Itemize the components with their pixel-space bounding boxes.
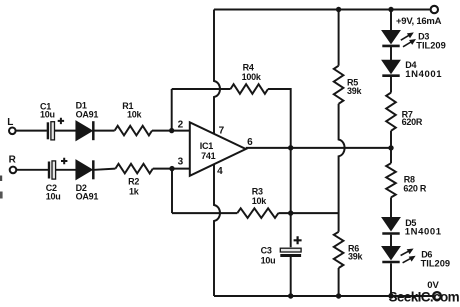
svg-text:R4: R4 [243,62,254,72]
svg-text:3: 3 [178,156,184,167]
wire C3 bottom to rail [290,256,292,296]
junction R7/R8 node [388,145,393,150]
LED D6 cathode bar [382,261,399,264]
wire R2 to pin 3 [153,168,190,170]
op-amp IC1 741 [190,122,246,176]
svg-text:IC1: IC1 [200,141,214,151]
node R input terminal [10,167,17,174]
wire R1 to pin 2 [152,130,190,132]
svg-text:+9V, 16mA: +9V, 16mA [396,16,442,27]
junction top rail LED column [388,7,393,12]
diode D4 cathode bar [382,74,399,77]
wire L input to C1 [16,130,47,132]
svg-text:1N4001: 1N4001 [405,69,442,80]
svg-text:741: 741 [201,151,216,161]
wire D2 to R2 [95,169,116,170]
svg-text:4: 4 [217,166,223,177]
diode D5 cathode bar [382,232,399,235]
wire V+ vertical to pin 7 (hops over R4 feedback wire) [214,10,220,135]
capacitor C2 negative plate [48,162,50,179]
wire pin3 node horizontal to R3 [172,212,237,214]
LED D3 cathode bar [382,45,399,48]
wire R6 bottom to rail [338,268,340,296]
wire R8 to D5 [390,197,392,217]
svg-text:TIL209: TIL209 [416,40,445,50]
junction R3/C3 node [288,210,293,215]
wire LED column top [390,10,392,31]
wire D4 to R7 [390,77,392,93]
resistor R2 [115,164,152,174]
svg-text:C3: C3 [261,245,272,255]
capacitor C1 positive plate [51,122,55,140]
resistor R4 [231,84,269,94]
diode D2 cathode bar [92,160,95,179]
svg-text:OA91: OA91 [76,192,99,202]
capacitor C1 negative plate [47,122,49,139]
plus sign C3 [294,236,302,244]
node +9V terminal [431,6,438,13]
diode D4 [383,61,400,73]
node L input terminal [9,128,16,135]
wire R5 bottom (hops over output wire) [339,104,345,232]
node 0V terminal [433,292,441,300]
svg-text:R2: R2 [128,177,139,187]
wire pin 4 vertical to bottom rail (hops over R3 wire) [214,165,220,297]
wire D5 to D6 [390,235,392,247]
junction bottom rail C3 [288,293,293,298]
svg-text:10k: 10k [127,110,143,120]
resistor R7 [386,93,396,131]
svg-text:620R: 620R [402,117,423,127]
junction bottom rail LED column [388,293,393,298]
junction output node [288,145,293,150]
resistor R8 [386,163,396,197]
LED D3 light arrows [401,32,416,46]
wire pin 3 node down [171,169,173,214]
svg-text:R3: R3 [252,186,263,196]
svg-text:L: L [7,117,13,128]
capacitor C3 negative plate [280,254,301,257]
wire top supply rail [214,9,430,11]
capacitor C2 positive plate [52,161,56,179]
junction top rail R5 [336,7,341,12]
LED D3 [383,31,400,43]
wire R input to C2 [16,169,48,171]
wire R5/R6 column top segment [338,10,340,66]
LED D6 light arrows [401,249,416,263]
svg-text:SeekIC.com: SeekIC.com [389,290,460,305]
resistor R1 [115,126,152,136]
wire bottom 0V rail [214,295,433,297]
svg-text:100k: 100k [242,72,262,82]
diode D5 [383,218,400,230]
wire output node down to R3/C3 node [290,148,292,213]
wire C2 to D2 [56,169,77,171]
wire feedback horizontal to R4 [172,88,231,90]
svg-text:10u: 10u [46,192,61,202]
svg-text:10u: 10u [261,255,276,265]
svg-text:10u: 10u [40,110,55,120]
svg-text:1N4001: 1N4001 [405,227,442,238]
plus sign C1 [58,118,64,124]
svg-text:620 R: 620 R [403,183,427,193]
svg-text:10k: 10k [252,196,268,206]
resistor R6 [334,232,344,268]
LED D6 [383,247,400,259]
resistor R5 [334,66,344,104]
wire D1 to R1 [95,130,115,132]
wire C1 to D1 [55,130,77,132]
capacitor C3 positive plate [280,248,301,252]
svg-text:OA91: OA91 [76,110,99,120]
wire feedback vertical from pin 2 node [171,89,173,131]
svg-text:R: R [9,155,17,166]
svg-text:39k: 39k [348,251,364,261]
junction pin 2 node [169,128,174,133]
junction pin 3 node [169,166,174,171]
wire R3 right to R5/R6 column [278,212,338,214]
wire D6 to bottom rail [390,263,392,296]
diode D1 [76,121,92,140]
scan artifact left edge 2 [0,192,3,199]
junction bottom rail R6 [336,293,341,298]
svg-text:6: 6 [247,137,253,148]
plus sign C2 [61,158,67,164]
diode D1 cathode bar [92,121,95,140]
svg-text:39k: 39k [347,86,363,96]
resistor R3 [237,208,278,218]
svg-text:2: 2 [178,119,184,130]
wire D3 to D4 [390,47,392,61]
wire C3 node down to top plate [290,213,292,247]
svg-text:TIL209: TIL209 [421,258,450,268]
svg-text:7: 7 [219,126,225,137]
diode D2 [76,161,92,180]
wire output horizontal pin6 to R7/R8 junction [246,147,391,149]
wire R4 right to corner [268,89,291,148]
scan artifact left edge 1 [0,176,2,182]
svg-text:1k: 1k [129,186,140,196]
wire R7 to junction [390,131,392,163]
